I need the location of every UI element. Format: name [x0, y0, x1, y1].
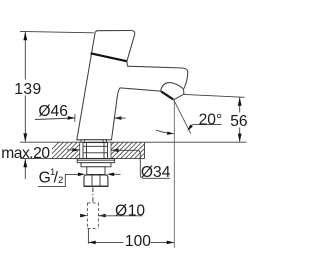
svg-text:max.20: max.20 [1, 145, 50, 162]
svg-text:Ø34: Ø34 [141, 164, 171, 181]
svg-text:2: 2 [58, 175, 63, 186]
svg-text:139: 139 [14, 81, 42, 98]
svg-text:10: 10 [128, 202, 146, 219]
svg-text:Ø: Ø [115, 202, 127, 219]
svg-text:20°: 20° [199, 111, 223, 128]
svg-text:56: 56 [230, 113, 247, 130]
svg-text:G: G [39, 170, 51, 187]
svg-text:Ø46: Ø46 [38, 103, 67, 120]
svg-text:100: 100 [125, 233, 151, 250]
